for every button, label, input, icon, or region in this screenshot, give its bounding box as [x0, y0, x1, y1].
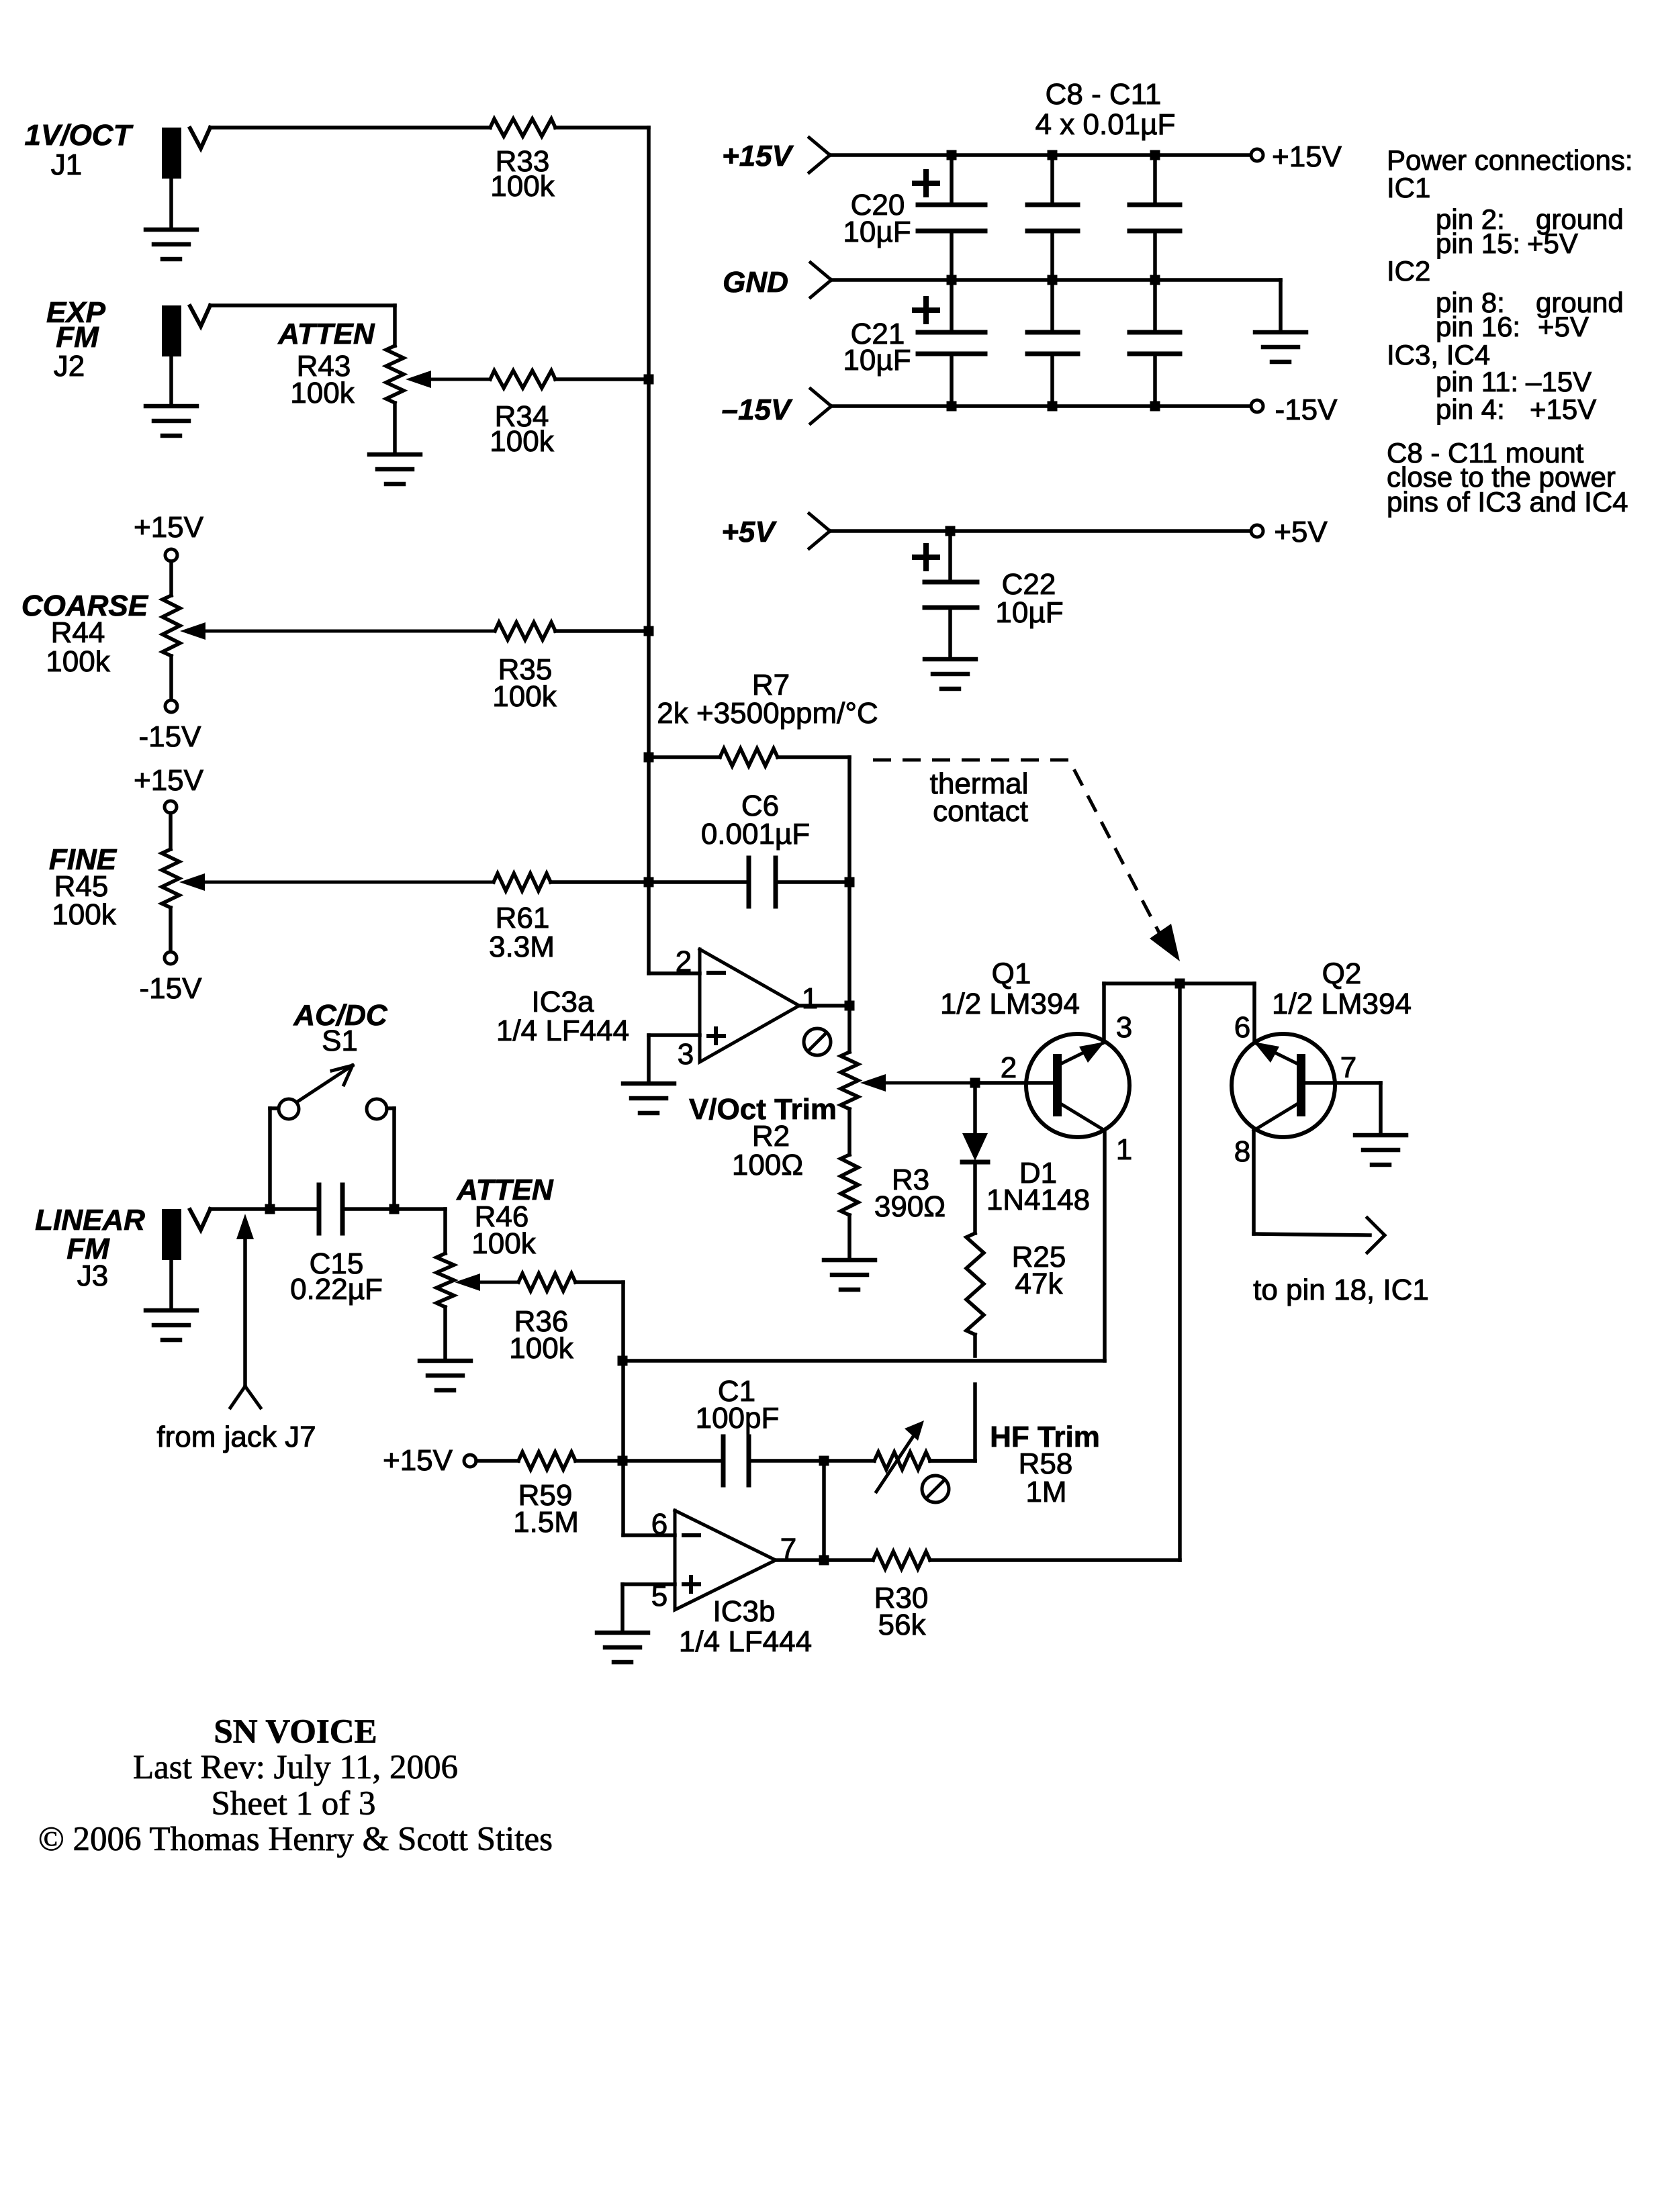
- wire C6 to output: [776, 880, 849, 884]
- wire IC3b output: [776, 1558, 824, 1562]
- label R3: [892, 1163, 929, 1196]
- wire bus to C6: [649, 880, 749, 884]
- svg-text:100k: 100k: [509, 1332, 573, 1365]
- svg-text:1/2 LM394: 1/2 LM394: [1272, 988, 1412, 1020]
- label +15V R59: [383, 1444, 453, 1477]
- label +15V R44: [134, 511, 204, 544]
- svg-text:S1: S1: [322, 1024, 358, 1057]
- label +15V right: [1272, 140, 1342, 173]
- svg-text:1V/OCT: 1V/OCT: [25, 119, 134, 152]
- resistor R35: [495, 622, 555, 640]
- junction S1 right: [389, 1204, 400, 1214]
- wire S1 left contact: [270, 1108, 278, 1209]
- pin 3 label Q1: [1116, 1011, 1132, 1044]
- wire R33 to bus: [555, 126, 649, 130]
- svg-text:+5V: +5V: [721, 516, 777, 548]
- wire C1 to R58: [749, 1459, 874, 1463]
- ground IC3a pin 3: [623, 1084, 674, 1113]
- capacitor C20: [918, 155, 985, 280]
- terminal +15V R45: [165, 801, 177, 813]
- junction bus R34: [644, 375, 654, 385]
- junction GND C8: [1048, 275, 1058, 285]
- junction -15V C21: [947, 401, 957, 412]
- svg-text:J2: J2: [54, 350, 85, 383]
- value R25 47k: [1015, 1267, 1064, 1300]
- label J2: [54, 350, 85, 383]
- label C15: [310, 1247, 364, 1280]
- plus sign C20: [915, 172, 937, 195]
- label -15V right: [1275, 393, 1338, 426]
- label -15V R45: [140, 972, 203, 1005]
- label to pin 18 IC1: [1253, 1273, 1429, 1306]
- svg-text:LINEAR: LINEAR: [35, 1204, 145, 1237]
- svg-text:1.5M: 1.5M: [513, 1506, 579, 1539]
- wire J2 to R43: [210, 305, 395, 346]
- capacitor C11: [1129, 280, 1180, 406]
- svg-text:+15V: +15V: [383, 1444, 453, 1477]
- ground R46: [420, 1361, 471, 1390]
- svg-text:1/4 LF444: 1/4 LF444: [679, 1625, 812, 1658]
- svg-text:100k: 100k: [471, 1227, 536, 1260]
- label ATTEN R43: [277, 318, 375, 350]
- wire C1 junction down: [822, 1461, 826, 1560]
- title last rev: [133, 1749, 458, 1786]
- value Q1 1/2 LM394: [940, 988, 1080, 1020]
- svg-text:1/2 LM394: 1/2 LM394: [940, 988, 1080, 1020]
- wiper R46: [455, 1273, 518, 1291]
- ground J2: [146, 356, 197, 436]
- svg-text:ATTEN: ATTEN: [277, 318, 375, 350]
- value C6 0.001uF: [701, 818, 810, 851]
- svg-text:100k: 100k: [52, 898, 116, 931]
- label Q1: [992, 957, 1031, 990]
- value C8-C11 4 x 0.01uF: [1035, 108, 1176, 141]
- label IC3b: [713, 1595, 776, 1628]
- potentiometer R45: [162, 849, 179, 908]
- trimpot R2: [841, 1052, 858, 1109]
- pin 6 label IC3b: [651, 1508, 667, 1541]
- svg-text:-15V: -15V: [140, 972, 203, 1005]
- wire J3 to C15: [210, 1207, 319, 1211]
- label contact: [933, 795, 1028, 828]
- junction S1 left: [265, 1204, 275, 1214]
- svg-text:56k: 56k: [878, 1608, 927, 1641]
- label R46: [475, 1200, 529, 1233]
- wire bus to R7: [649, 755, 720, 759]
- pin 8 label Q2: [1234, 1135, 1250, 1168]
- svg-text:-15V: -15V: [139, 720, 202, 753]
- thermal contact dashed line: [873, 760, 1180, 961]
- input chevron +15V: [809, 138, 830, 173]
- label GND rail: [723, 266, 788, 299]
- note IC3 IC4: [1387, 339, 1490, 371]
- potentiometer R46: [436, 1253, 454, 1307]
- wire R2 to R3: [847, 1109, 851, 1155]
- svg-text:FM: FM: [56, 321, 99, 354]
- input chevron +5V: [809, 514, 830, 548]
- wire R46 to ground: [443, 1307, 447, 1361]
- pin 7 label Q2: [1340, 1051, 1356, 1084]
- label J1: [51, 148, 82, 181]
- svg-text:C8 - C11: C8 - C11: [1046, 78, 1162, 111]
- ground R43: [369, 454, 420, 484]
- svg-text:contact: contact: [933, 795, 1028, 828]
- resistor R7: [720, 749, 778, 766]
- svg-text:R44: R44: [51, 616, 105, 649]
- value D1 1N4148: [986, 1184, 1090, 1216]
- label C6: [741, 789, 779, 822]
- plus sign C22: [915, 546, 937, 569]
- svg-text:3: 3: [678, 1038, 694, 1071]
- svg-text:from jack J7: from jack J7: [156, 1421, 316, 1453]
- wire S1 right contact: [387, 1108, 394, 1209]
- value C20 10uF: [843, 215, 911, 248]
- wire Q2 emitter down: [1252, 1131, 1256, 1234]
- label J3: [77, 1259, 108, 1292]
- label LINEAR: [35, 1204, 145, 1237]
- wire node to D1: [973, 1083, 977, 1133]
- svg-text:Power connections:: Power connections:: [1387, 144, 1633, 176]
- terminal +15V R59: [464, 1455, 476, 1467]
- title sheet: [211, 1785, 375, 1823]
- svg-text:100k: 100k: [490, 170, 555, 203]
- transistor Q2: [1232, 1034, 1335, 1137]
- note pin4: [1436, 393, 1596, 425]
- label C21: [851, 318, 905, 350]
- label R43: [297, 350, 351, 383]
- junction R36 node: [618, 1356, 628, 1366]
- wire wiper to Q1 base: [975, 1081, 1053, 1085]
- label from jack J7: [156, 1421, 316, 1453]
- wire R25 lower: [973, 1335, 977, 1356]
- svg-text:0.001µF: 0.001µF: [701, 818, 810, 851]
- svg-text:6: 6: [1234, 1011, 1250, 1044]
- junction top rail: [1175, 979, 1185, 989]
- svg-text:+15V: +15V: [134, 764, 204, 797]
- junction +5V C22: [946, 526, 956, 536]
- wire output to R30: [824, 1558, 873, 1562]
- junction R59 node: [618, 1456, 628, 1466]
- svg-text:Q1: Q1: [992, 957, 1031, 990]
- wire R36 to node: [575, 1282, 623, 1535]
- label FM J3: [66, 1233, 110, 1265]
- title SN VOICE: [214, 1713, 377, 1751]
- resistor R33: [490, 119, 555, 136]
- capacitor C10: [1129, 155, 1180, 280]
- value R61 3.3M: [489, 930, 555, 963]
- note pin11: [1436, 366, 1592, 397]
- terminal -15V R44: [165, 700, 177, 712]
- note C8-C11 mount: [1387, 437, 1584, 469]
- pin 1 label IC3a: [802, 982, 818, 1015]
- junction wiper node: [970, 1078, 980, 1088]
- pin 7 label IC3b: [780, 1533, 796, 1566]
- svg-text:2: 2: [676, 945, 692, 978]
- svg-text:J3: J3: [77, 1259, 108, 1292]
- label R30: [874, 1582, 929, 1615]
- wire R7 to output: [778, 757, 849, 1006]
- label R36: [514, 1305, 569, 1338]
- wire -15V rail: [831, 404, 1251, 408]
- svg-text:IC1: IC1: [1387, 172, 1430, 203]
- wire Q1 emitter to IC3b node: [622, 1359, 1105, 1363]
- value R35 100k: [492, 680, 557, 713]
- terminal -15V right: [1251, 400, 1263, 412]
- junction bus R35: [644, 626, 654, 636]
- wiper R43: [406, 371, 490, 388]
- svg-text:R2: R2: [752, 1120, 790, 1153]
- svg-text:+15V: +15V: [1530, 393, 1596, 425]
- svg-text:47k: 47k: [1015, 1267, 1064, 1300]
- svg-text:SN VOICE: SN VOICE: [214, 1713, 377, 1751]
- label AC/DC: [293, 999, 388, 1032]
- potentiometer R43: [386, 346, 404, 403]
- label +15V rail: [722, 140, 794, 173]
- capacitor C1: [723, 1437, 749, 1485]
- capacitor C21: [918, 280, 985, 406]
- capacitor C22: [925, 531, 977, 659]
- junction GND C10: [1150, 275, 1160, 285]
- label R2: [752, 1120, 790, 1153]
- jack J3: [162, 1209, 210, 1260]
- label C1: [718, 1375, 755, 1408]
- label R44: [51, 616, 105, 649]
- svg-text:10µF: 10µF: [843, 215, 911, 248]
- value R33 100k: [490, 170, 555, 203]
- trimmer symbol IC3a: [804, 1028, 831, 1055]
- label 1V/OCT: [25, 119, 134, 152]
- svg-text:1N4148: 1N4148: [986, 1184, 1090, 1216]
- svg-text:4 x 0.01µF: 4 x 0.01µF: [1035, 108, 1176, 141]
- label thermal: [930, 767, 1029, 800]
- label V/Oct Trim: [689, 1093, 837, 1126]
- wire IC3a output: [799, 1004, 849, 1008]
- terminal -15V R45: [165, 952, 177, 964]
- jack J1: [162, 128, 210, 179]
- value R43 100k: [290, 377, 355, 410]
- svg-text:7: 7: [1340, 1051, 1356, 1084]
- label R45: [54, 870, 109, 903]
- label COARSE: [21, 589, 149, 622]
- wire top rail Q1 Q2: [1104, 981, 1254, 985]
- resistor R30: [873, 1551, 930, 1569]
- wire R34 to bus: [555, 377, 649, 381]
- svg-text:390Ω: 390Ω: [874, 1190, 946, 1223]
- value R36 100k: [509, 1332, 573, 1365]
- terminal +5V right: [1251, 525, 1263, 537]
- svg-text:IC3b: IC3b: [713, 1595, 776, 1628]
- label R7: [752, 669, 790, 702]
- svg-text:Last Rev: July 11, 2006: Last Rev: July 11, 2006: [133, 1749, 458, 1786]
- value R3 390ohm: [874, 1190, 946, 1223]
- wire bus to pin 2: [649, 971, 700, 975]
- svg-text:J1: J1: [51, 148, 82, 181]
- ground GND rail: [1255, 332, 1306, 362]
- value C1 100pF: [696, 1402, 780, 1435]
- junction IC3a output: [845, 1001, 855, 1011]
- label R61: [496, 902, 550, 934]
- label S1: [322, 1024, 358, 1057]
- junction +15V C20: [947, 150, 957, 160]
- junction IC3b output: [819, 1555, 829, 1566]
- wire R25 to HF trim corner: [930, 1384, 975, 1461]
- svg-text:IC2: IC2: [1387, 255, 1430, 287]
- op-amp IC3a: [700, 949, 799, 1062]
- junction C6 output: [845, 877, 855, 887]
- svg-text:1: 1: [1116, 1133, 1132, 1166]
- wire D1 to R25: [973, 1162, 977, 1233]
- svg-text:1: 1: [802, 982, 818, 1015]
- svg-text:100pF: 100pF: [696, 1402, 780, 1435]
- wire Q2 collector up: [1252, 983, 1256, 1041]
- wire R58 right: [930, 1459, 975, 1463]
- svg-text:3.3M: 3.3M: [489, 930, 555, 963]
- input chevron GND: [811, 262, 831, 297]
- pin 2 label Q1: [1001, 1051, 1017, 1084]
- svg-text:© 2006 Thomas Henry & Scott St: © 2006 Thomas Henry & Scott Stites: [38, 1821, 553, 1858]
- label HF Trim: [990, 1421, 1100, 1453]
- wire GND to ground: [1279, 280, 1283, 332]
- transistor Q1: [1026, 1034, 1129, 1137]
- label R34: [495, 400, 549, 433]
- junction GND C20: [947, 275, 957, 285]
- junction -15V C9: [1048, 401, 1058, 412]
- wire Q2 emitter out: [1254, 1234, 1370, 1235]
- note IC1: [1387, 172, 1430, 203]
- value R34 100k: [490, 425, 554, 458]
- pin 3 label IC3a: [678, 1038, 694, 1071]
- svg-text:1/4 LF444: 1/4 LF444: [496, 1014, 629, 1047]
- ground J1: [146, 179, 197, 259]
- svg-text:Q2: Q2: [1322, 957, 1362, 990]
- svg-text:+15V: +15V: [722, 140, 794, 173]
- value R30 56k: [878, 1608, 927, 1641]
- wire R45 bottom: [169, 908, 173, 952]
- junction C1 output: [819, 1456, 829, 1466]
- resistor R61: [494, 873, 551, 891]
- svg-text:3: 3: [1116, 1011, 1132, 1044]
- capacitor C8: [1027, 155, 1078, 280]
- wire R59 to node: [575, 1459, 622, 1463]
- label C22: [1002, 568, 1056, 601]
- note pins of IC3 IC4: [1387, 486, 1628, 518]
- svg-text:–15V: –15V: [1526, 366, 1592, 397]
- capacitor C15: [319, 1185, 342, 1233]
- svg-text:10µF: 10µF: [995, 596, 1063, 629]
- wire Q1 emitter down: [1103, 1131, 1107, 1361]
- value R44 100k: [46, 645, 110, 678]
- svg-text:pin 11:: pin 11:: [1436, 366, 1518, 397]
- label Q2: [1322, 957, 1362, 990]
- wire R44 bottom: [169, 656, 173, 700]
- wire output to R2: [847, 1006, 851, 1052]
- resistor R3: [841, 1155, 858, 1215]
- value Q2 1/2 LM394: [1272, 988, 1412, 1020]
- wiper R44: [180, 622, 495, 640]
- svg-text:100k: 100k: [490, 425, 554, 458]
- jack J2: [162, 305, 210, 356]
- svg-text:2: 2: [1001, 1051, 1017, 1084]
- wire node to C1: [623, 1459, 723, 1463]
- svg-text:+5V: +5V: [1274, 516, 1328, 548]
- wire C15 to R46: [342, 1209, 445, 1253]
- value C15 0.22uF: [290, 1273, 383, 1306]
- wiper R2: [860, 1074, 975, 1092]
- pin 6 label Q2: [1234, 1011, 1250, 1044]
- note power connections: [1387, 144, 1633, 176]
- wire +15V to R59: [476, 1459, 518, 1463]
- wire R30 to top rail: [930, 983, 1180, 1560]
- svg-text:+15V: +15V: [1272, 140, 1342, 173]
- note IC1 pin2: [1436, 203, 1624, 235]
- label R58: [1019, 1447, 1073, 1480]
- svg-text:to pin 18, IC1: to pin 18, IC1: [1253, 1273, 1429, 1306]
- wire Q1 collector up: [1102, 983, 1106, 1041]
- resistor R36: [518, 1273, 575, 1291]
- potentiometer R44: [163, 595, 180, 656]
- label R25: [1012, 1241, 1066, 1273]
- label -15V R44: [139, 720, 202, 753]
- svg-text:R61: R61: [496, 902, 550, 934]
- value R46 100k: [471, 1227, 536, 1260]
- note IC1 pin15: [1436, 228, 1578, 259]
- arrow to pin 18 IC1: [1367, 1218, 1385, 1253]
- pin 5 label IC3b: [651, 1580, 667, 1613]
- svg-text:0.22µF: 0.22µF: [290, 1273, 383, 1306]
- wire R35 to bus: [555, 629, 649, 633]
- label +5V right: [1274, 516, 1328, 548]
- wire pin 3 to ground: [649, 1035, 700, 1084]
- svg-text:100Ω: 100Ω: [732, 1149, 803, 1182]
- label +5V rail: [721, 516, 777, 548]
- wire +15V rail: [831, 153, 1251, 157]
- value C22 10uF: [995, 596, 1063, 629]
- value R45 100k: [52, 898, 116, 931]
- note close to power: [1387, 461, 1616, 493]
- label R35: [498, 653, 553, 686]
- resistor R59: [518, 1452, 575, 1470]
- ground R3: [824, 1260, 875, 1290]
- svg-text:8: 8: [1234, 1135, 1250, 1168]
- wiper R45: [179, 873, 494, 891]
- label C20: [851, 189, 905, 222]
- junction -15V C11: [1150, 401, 1160, 412]
- wire +5V rail: [829, 529, 1251, 533]
- label -15V rail: [722, 393, 793, 426]
- label +15V R45: [134, 764, 204, 797]
- label IC3a: [532, 985, 594, 1018]
- svg-text:-15V: -15V: [1275, 393, 1338, 426]
- wire J1 to R33: [210, 126, 490, 130]
- capacitor C6: [749, 858, 776, 906]
- ground J3: [146, 1260, 197, 1340]
- junction bus R7: [644, 753, 654, 763]
- junction bus R61: [644, 877, 654, 887]
- pin 1 label Q1: [1116, 1133, 1132, 1166]
- svg-text:6: 6: [651, 1508, 667, 1541]
- wire R45 top: [169, 813, 173, 849]
- wire R43 to ground: [393, 403, 397, 454]
- wire main bus vertical: [647, 128, 651, 973]
- note IC2 pin8: [1436, 287, 1624, 318]
- op-amp IC3b: [675, 1510, 776, 1610]
- svg-text:+5V: +5V: [1538, 311, 1589, 342]
- terminal +15V right: [1251, 149, 1263, 161]
- label EXP: [46, 296, 106, 329]
- capacitor C9: [1027, 280, 1078, 406]
- value R58 1M: [1025, 1476, 1066, 1508]
- value R59 1.5M: [513, 1506, 579, 1539]
